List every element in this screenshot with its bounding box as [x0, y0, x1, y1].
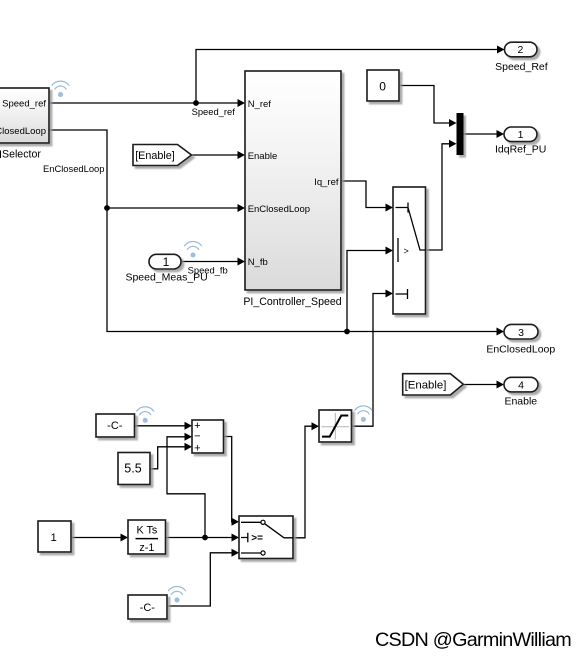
svg-text:Selector: Selector: [2, 148, 41, 160]
constant -C- bottom: [128, 595, 167, 619]
wire integrator to switch2 control: [166, 537, 232, 539]
wire Enable tag to PI: [192, 154, 239, 156]
svg-text:Iq_ref: Iq_ref: [314, 177, 339, 188]
from tag Enable top: [133, 145, 192, 166]
arrowhead into switch1 control: [386, 247, 394, 255]
from tag Enable bottom: [403, 374, 464, 395]
constant 5.5: [118, 453, 150, 485]
wire switch2 output to saturation: [293, 426, 312, 538]
sum block: [192, 420, 224, 454]
block PI_Controller_Speed: [245, 71, 341, 290]
arrowhead into outport 3: [497, 328, 505, 336]
arrowhead into saturation: [312, 422, 320, 430]
svg-text:IdqRef_PU: IdqRef_PU: [495, 144, 546, 156]
switch1: [393, 187, 426, 314]
arrowhead into sum input3: [185, 443, 193, 451]
block Selector (clipped at left edge): [0, 88, 49, 143]
wifi badge Selector output: [52, 81, 69, 97]
junction EnClosedLoop upper: [104, 205, 110, 211]
wire const -C- to sum input1: [135, 425, 186, 427]
svg-text:+: +: [194, 442, 200, 454]
svg-text:>=: >=: [251, 533, 263, 544]
svg-text:-C-: -C-: [140, 602, 156, 614]
wire EnClosedLoop branch to PI input: [107, 207, 238, 209]
svg-text:[Enable]: [Enable]: [135, 150, 175, 162]
svg-text:N_ref: N_ref: [248, 99, 272, 110]
wire const 5.5 to sum input3: [150, 447, 185, 469]
wire const 0 to mux: [399, 86, 450, 124]
wire sum output down to switch2 input1: [224, 437, 233, 522]
wire EnClosedLoop from Selector down and right to outport 3: [49, 130, 497, 332]
svg-text:3: 3: [518, 327, 524, 339]
svg-text:Speed_ref: Speed_ref: [192, 106, 236, 117]
wire Iq_ref to switch1 input1: [341, 181, 386, 208]
wifi badge -C- bottom: [169, 586, 186, 602]
arrowhead into switch2 input1: [232, 518, 240, 526]
constant 0: [367, 70, 399, 101]
wire Speed_Meas_PU to N_fb: [181, 261, 238, 263]
wire mux to outport 1: [464, 133, 498, 135]
svg-text:EnClosedLoop: EnClosedLoop: [43, 163, 105, 174]
wire const -C- bottom to switch2 input3: [167, 553, 232, 606]
svg-text:Enable: Enable: [248, 151, 278, 162]
arrowhead into outport 4: [497, 381, 505, 389]
arrowhead into integrator: [121, 534, 129, 542]
svg-text:Enable: Enable: [504, 396, 537, 408]
arrowhead into switch1 input1: [386, 204, 394, 212]
arrowhead into switch2 control: [232, 534, 240, 542]
integrator K Ts / z-1: [128, 520, 166, 554]
svg-text:K Ts: K Ts: [136, 525, 157, 537]
wire const 1 to integrator: [71, 537, 121, 539]
svg-text:2: 2: [517, 44, 523, 56]
svg-text:1: 1: [163, 255, 170, 269]
wire Speed_ref branch up to Speed_Ref outport: [196, 50, 497, 104]
svg-text:−: −: [194, 431, 200, 443]
arrowhead into sum input2: [185, 433, 193, 441]
outport 3 EnClosedLoop: [504, 324, 538, 339]
wifi badge -C- top: [137, 407, 154, 423]
svg-text:-C-: -C-: [107, 420, 123, 432]
junction EnClosedLoop lower: [344, 329, 350, 335]
junction Speed_ref: [193, 100, 199, 106]
arrowhead into EnClosedLoop: [238, 204, 246, 212]
label Selector: [0, 148, 41, 160]
outport 1 IdqRef_PU: [504, 127, 537, 142]
saturation block: [319, 410, 352, 442]
wire feedback junction to sum input2: [167, 437, 205, 538]
svg-text:5.5: 5.5: [124, 462, 141, 476]
outport 2 Speed_Ref: [505, 42, 538, 57]
svg-text:Speed_fb: Speed_fb: [188, 264, 228, 275]
wire Enable tag 2 to outport 4: [463, 384, 497, 386]
arrowhead into mux input2: [449, 140, 457, 148]
svg-text:>: >: [404, 246, 409, 256]
svg-text:EnClosedLoop: EnClosedLoop: [0, 126, 46, 137]
svg-text:Speed_ref: Speed_ref: [2, 99, 46, 110]
arrowhead into sum input1: [185, 422, 193, 430]
arrowhead into Enable: [238, 151, 246, 159]
wire saturation up to switch1 input3: [352, 294, 386, 427]
svg-text:z-1: z-1: [139, 542, 154, 554]
svg-text:1: 1: [518, 129, 524, 141]
wifi badge saturation: [355, 406, 372, 422]
switch2: [239, 516, 293, 559]
svg-text:0: 0: [379, 79, 386, 93]
outport 4 Enable: [504, 377, 538, 392]
wire Speed_ref from Selector to N_ref: [49, 102, 238, 104]
svg-text:4: 4: [518, 380, 524, 392]
mux: [457, 113, 464, 155]
svg-text:PI_Controller_Speed: PI_Controller_Speed: [243, 296, 341, 308]
arrowhead into switch1 input3: [386, 290, 394, 298]
wire switch1 output up to mux: [426, 144, 450, 250]
svg-text:N_fb: N_fb: [248, 257, 268, 268]
arrowhead into mux input1: [449, 119, 457, 127]
svg-text:[Enable]: [Enable]: [405, 379, 447, 391]
constant 1: [38, 521, 71, 552]
constant -C- top: [96, 414, 135, 437]
inport 1 Speed_Meas_PU: [149, 254, 181, 269]
wire EnClosedLoop branch up to switch control: [347, 251, 386, 332]
svg-text:EnClosedLoop: EnClosedLoop: [486, 343, 555, 355]
svg-text:Speed_Ref: Speed_Ref: [495, 61, 548, 73]
svg-text:EnClosedLoop: EnClosedLoop: [248, 204, 310, 215]
arrowhead into switch2 input3: [232, 549, 240, 557]
svg-text:1: 1: [51, 532, 57, 544]
svg-text:CSDN @GarminWilliam: CSDN @GarminWilliam: [375, 629, 571, 651]
arrowhead into outport 1: [497, 130, 505, 138]
arrowhead into N_ref: [238, 99, 246, 107]
arrowhead into outport 2: [497, 46, 505, 54]
arrowhead into N_fb: [238, 258, 246, 266]
wifi badge Speed_Meas_PU: [185, 241, 202, 257]
junction integrator output: [202, 535, 208, 541]
